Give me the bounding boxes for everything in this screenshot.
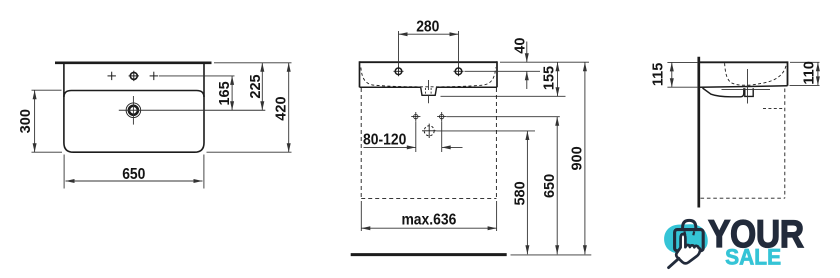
svg-text:650: 650 [122,165,145,183]
svg-text:max.636: max.636 [401,210,456,228]
svg-text:900: 900 [570,146,586,170]
svg-text:110: 110 [801,61,817,84]
svg-text:650: 650 [542,174,558,198]
svg-text:280: 280 [416,18,439,36]
svg-text:155: 155 [541,66,557,90]
svg-text:165: 165 [217,81,233,105]
svg-text:115: 115 [650,63,666,86]
svg-text:80-120: 80-120 [363,131,406,149]
svg-text:225: 225 [248,74,264,98]
svg-text:300: 300 [18,109,34,133]
svg-text:SALE: SALE [725,244,781,270]
svg-text:420: 420 [273,96,289,120]
svg-text:40: 40 [512,38,528,54]
svg-text:580: 580 [512,181,528,205]
